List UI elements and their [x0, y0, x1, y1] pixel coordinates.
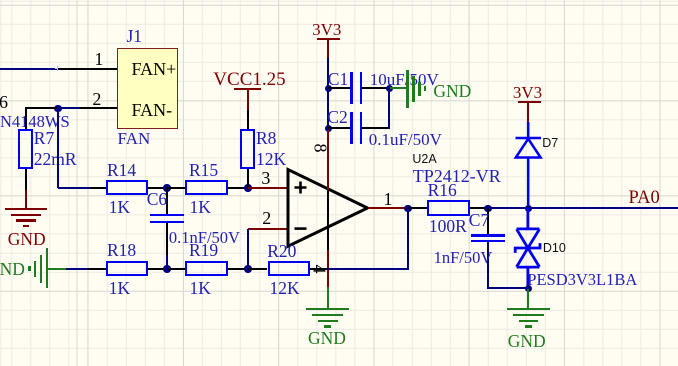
- diode D7: [510, 120, 546, 210]
- ground GND sideways (top): [390, 87, 408, 89]
- resistor R7: [18, 129, 33, 169]
- capacitor C7 top pin: [487, 208, 489, 235]
- pin number 2 (J1): [92, 90, 101, 108]
- TVS diode D10: [508, 204, 552, 292]
- op-amp pin 8: [327, 130, 329, 190]
- net label PA0: [629, 189, 660, 208]
- value TP2412-VR: [413, 167, 501, 185]
- value 1nF/50V: [434, 250, 493, 267]
- pin right of R16: [470, 207, 488, 209]
- capacitor C7 bottom pin: [487, 242, 489, 289]
- resistor R16: [427, 200, 470, 215]
- value FAN: [118, 130, 151, 147]
- value 1K (R19): [190, 280, 211, 298]
- op-amp pin 1 wire: [368, 207, 408, 209]
- junction node FAN-: [54, 105, 62, 113]
- ground GND (bottom right): [527, 289, 529, 309]
- pin left of R18: [88, 268, 106, 270]
- label C2: [327, 109, 347, 127]
- label R18: [107, 242, 136, 260]
- capacitor C7 plates: [471, 234, 506, 237]
- wire FAN- down to R14 row: [57, 107, 59, 188]
- pin name FAN-: [132, 101, 173, 119]
- wire to R14: [58, 187, 91, 189]
- wire net PA0: [528, 207, 678, 209]
- op-amp pin 2 wire: [248, 228, 288, 230]
- junction node C6 bottom: [163, 265, 171, 273]
- power port 3V3 (top middle): [312, 21, 341, 38]
- pin left of R15: [167, 187, 186, 189]
- value 0.1uF/50V: [369, 131, 442, 148]
- value 1K (R15): [190, 199, 211, 217]
- pin top of R7: [25, 107, 27, 130]
- pin top of R8: [247, 110, 249, 129]
- junction node inverting input: [244, 265, 252, 273]
- capacitor C6 bottom pin: [166, 223, 168, 256]
- ground GND sideways (left): [0, 261, 25, 279]
- wire pin2 down to R19/R20 node: [247, 229, 249, 269]
- label R7: [34, 130, 54, 148]
- label GND (top): [433, 83, 471, 101]
- value 22mR: [34, 151, 77, 169]
- resistor R15: [185, 180, 228, 195]
- label D7: [542, 137, 558, 150]
- junction node C2 left: [325, 125, 333, 133]
- pin number 4 (rotated): [311, 264, 329, 273]
- pin number 2: [262, 209, 271, 227]
- value PESD3V3L1BA: [527, 272, 637, 289]
- resistor R8: [240, 129, 255, 169]
- pin right of R15: [228, 187, 248, 189]
- junction node C7 top: [484, 205, 492, 213]
- pin number 8 (rotated): [312, 144, 330, 153]
- label GND (maroon): [8, 231, 46, 249]
- pin left of R20: [248, 268, 268, 270]
- wire net FAN+ to J1 pin 1: [0, 68, 58, 70]
- label R19: [189, 242, 218, 260]
- junction node PA0/D7: [525, 205, 533, 213]
- wire net FAN- horizontal: [58, 107, 82, 109]
- value N4148WS: [0, 114, 70, 131]
- ground GND under op-amp: [327, 287, 329, 309]
- label J1: [127, 28, 143, 46]
- value 10uF/50V: [370, 71, 439, 88]
- junction node D10 bottom: [525, 285, 533, 293]
- capacitor C1 plates: [350, 72, 353, 104]
- pin bottom of R7: [25, 169, 27, 190]
- wire C2 right up to C1 node: [388, 88, 390, 129]
- pin right of R20: [310, 268, 328, 270]
- resistor R19: [185, 261, 228, 276]
- wire end marker: [55, 68, 60, 69]
- capacitor C1 right pin: [362, 87, 389, 89]
- value 12K (R20): [270, 280, 300, 298]
- value 1K (R14): [109, 199, 130, 217]
- pin name FAN+: [132, 60, 177, 78]
- pin right of R19: [228, 268, 248, 270]
- pin number 6 (left diode): [0, 93, 8, 111]
- value 100R: [429, 218, 467, 236]
- capacitor C6 plates: [150, 214, 183, 217]
- pin left of R16: [408, 207, 427, 209]
- pin 2 of J1: [80, 107, 117, 109]
- op-amp U2A triangle: [286, 167, 372, 251]
- label R8: [256, 130, 276, 148]
- op-amp pin 4: [327, 250, 329, 287]
- capacitor C1 left pin: [328, 87, 350, 89]
- resistor R18: [106, 261, 149, 276]
- value 0.1nF/50V: [169, 230, 240, 247]
- junction node op-amp pin3: [244, 184, 252, 192]
- label D10: [543, 242, 566, 255]
- pin right of R18: [148, 268, 166, 270]
- label R15: [189, 162, 218, 180]
- capacitor C6 top pin: [166, 188, 168, 215]
- label GND (bottom right): [508, 333, 546, 351]
- capacitor C2 plates: [350, 112, 353, 144]
- label GND (under op-amp): [308, 330, 346, 348]
- connector J1 body: [117, 48, 179, 129]
- label C7: [469, 212, 489, 230]
- label C1: [328, 71, 348, 89]
- wire output down: [407, 208, 409, 270]
- wire 3V3 down to C2 node: [327, 58, 329, 130]
- pin left of R14: [90, 187, 106, 189]
- label C6: [147, 191, 167, 209]
- wire FAN- to R7: [25, 107, 58, 109]
- label R20: [267, 243, 296, 261]
- pin number 3: [261, 169, 270, 187]
- resistor R14: [106, 180, 149, 195]
- label R14: [107, 162, 136, 180]
- value 12K (R8): [256, 151, 286, 169]
- capacitor C2 right pin: [362, 127, 389, 129]
- pin 1 of J1: [58, 68, 117, 70]
- label R16: [428, 182, 457, 200]
- op-amp pin 3 wire: [248, 187, 288, 189]
- ground GND under R7 (maroon): [25, 190, 27, 209]
- power port 3V3 (right): [513, 84, 542, 101]
- pin number 1: [384, 190, 393, 208]
- pin right of R14: [148, 187, 166, 189]
- capacitor C2 left pin: [328, 127, 350, 129]
- wire GND to R18: [66, 268, 88, 270]
- wire feedback to R20: [328, 268, 407, 270]
- label U2A: [412, 153, 436, 166]
- junction node C1 left: [325, 85, 333, 93]
- op-amp internal power line: [327, 190, 329, 250]
- junction node output: [404, 205, 412, 213]
- pin bottom of R8: [247, 169, 249, 188]
- pin number 1 (J1): [94, 50, 103, 68]
- junction node C6 top: [163, 184, 171, 192]
- value 1K (R18): [109, 280, 130, 298]
- wire C7 bottom to D10 bottom: [488, 287, 529, 289]
- wire C7 node to D10 node: [488, 207, 529, 209]
- junction node C1 right: [386, 85, 394, 93]
- pin left of R19: [167, 268, 186, 270]
- resistor R20: [268, 261, 311, 276]
- power port VCC1.25: [213, 70, 285, 89]
